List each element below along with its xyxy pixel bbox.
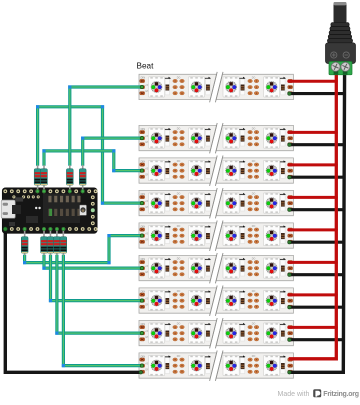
microcontroller U1 (Teensy-style board) (2, 188, 97, 234)
wire GND strip row 7 to black bus (288, 305, 344, 309)
svg-text:Made with: Made with (278, 391, 310, 398)
LED strip S5 (NeoPixel strip row 5) (139, 221, 293, 251)
wire data to strip row 9 (62, 255, 144, 368)
resistor R8 (330 ohm, to strip row 8) (54, 229, 61, 255)
wire data to strip row 3 (42, 149, 143, 172)
wire +5V strip row 8 to red bus (289, 326, 337, 329)
LED strip S7 (NeoPixel strip row 7) (139, 286, 293, 316)
LED strip S2 (NeoPixel strip row 2) (139, 123, 293, 153)
LED strip S9 (NeoPixel strip row 9) (139, 351, 293, 381)
pushbutton on U1 (80, 205, 87, 215)
resistor R2 (330 ohm, to strip row 2) (79, 165, 86, 191)
wire +5V strip row 4 to red bus (289, 196, 337, 199)
misc components on U1 (9, 197, 41, 226)
wire data to strip row 2 (81, 136, 143, 165)
resistor R5 (330 ohm, to strip row 5) (21, 229, 28, 255)
resistor R7 (330 ohm, to strip row 7) (47, 229, 54, 255)
wire GND strip row 1 to black bus (288, 92, 344, 96)
wire GND strip row 8 to black bus (288, 338, 344, 342)
LED strip S6 (NeoPixel strip row 6) (139, 253, 293, 283)
wire data to strip row 7 (49, 255, 144, 303)
wire +5V strip row 7 to red bus (289, 293, 337, 296)
IC chip footprint on U1 (43, 194, 81, 224)
resistor R3 (330 ohm, to strip row 3) (41, 165, 48, 191)
wire GND from controller to strip row 9 (5, 229, 142, 374)
resistor R9 (330 ohm, to strip row 9) (60, 229, 67, 255)
LED strip S3 (NeoPixel strip row 3) (139, 156, 293, 186)
resistor R6 (330 ohm, to strip row 6) (41, 229, 48, 255)
wire GND strip row 5 to black bus (288, 240, 344, 244)
wire data to strip row 6 (42, 255, 143, 270)
GND wire endpoint on U1 (3, 227, 7, 231)
svg-text:Fritzing.org: Fritzing.org (323, 391, 359, 398)
wire +5V strip row 5 to red bus (289, 228, 337, 231)
wire data to strip row 8 (55, 255, 143, 335)
red +5V bus from DC jack terminal (289, 70, 337, 359)
wire data to strip row 4 (36, 105, 144, 205)
wire GND strip row 3 to black bus (288, 175, 344, 179)
wire +5V strip row 1 to red bus (289, 80, 337, 83)
watermark Made with Fritzing.org (278, 389, 359, 398)
LED strip S4 (NeoPixel strip row 4) (139, 188, 293, 218)
LED strip S8 (NeoPixel strip row 8) (139, 318, 293, 348)
wire data to strip row 1 (68, 85, 143, 165)
LED strip S1 (NeoPixel strip row 1) (139, 72, 293, 102)
wire data to strip row 5 (23, 234, 144, 264)
resistor R4 (330 ohm, to strip row 4) (34, 165, 41, 191)
USB connector on U1 (1, 200, 15, 218)
wire GND strip row 6 to black bus (288, 273, 344, 277)
wire +5V strip row 6 to red bus (289, 261, 337, 264)
wire GND strip row 2 to black bus (288, 143, 344, 147)
DC barrel jack adapter J1 (326, 2, 356, 75)
screw terminal block on J1 (329, 62, 352, 75)
svg-text:Beat: Beat (137, 62, 155, 71)
wire +5V strip row 2 to red bus (289, 131, 337, 134)
black GND bus from DC jack terminal (288, 70, 345, 374)
wire +5V strip row 3 to red bus (289, 163, 337, 166)
resistor R1 (330 ohm, to strip row 1) (66, 165, 73, 191)
wire GND strip row 4 to black bus (288, 208, 344, 212)
wire endpoints at controller pads (23, 190, 84, 231)
